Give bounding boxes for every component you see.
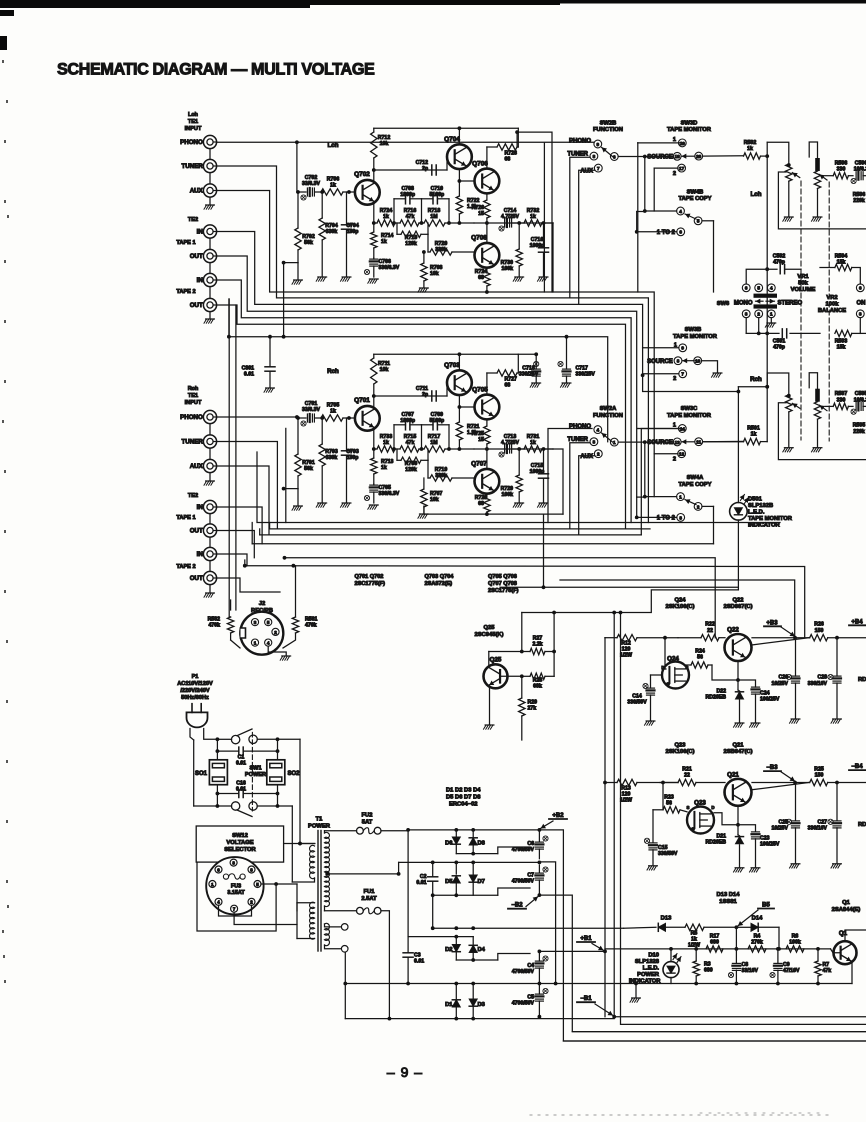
svg-text:SW2B: SW2B (600, 121, 617, 127)
svg-text:Q702: Q702 (354, 171, 370, 178)
mid rail wire (474, 222, 553, 224)
svg-text:RD1: RD1 (858, 677, 866, 683)
wire (618, 441, 673, 443)
wire (455, 953, 457, 961)
svg-text:Q701: Q701 (354, 397, 370, 404)
wire (638, 428, 683, 430)
transformer primary lower winding (297, 902, 315, 904)
svg-text:IN: IN (197, 551, 204, 558)
svg-text:R4: R4 (754, 934, 761, 940)
svg-text:3: 3 (254, 620, 257, 625)
wire (455, 845, 457, 854)
svg-text:R26: R26 (814, 622, 824, 628)
wire (517, 132, 552, 292)
svg-text:R706: R706 (327, 177, 340, 183)
svg-text:150: 150 (815, 628, 824, 634)
svg-text:D22: D22 (716, 689, 726, 695)
svg-text:SW2A: SW2A (600, 406, 618, 412)
svg-text:TE2: TE2 (188, 217, 198, 223)
svg-text:2: 2 (757, 312, 760, 317)
wire (752, 783, 810, 790)
wire bus Lch TAPE2 IN (217, 280, 631, 523)
svg-text:POWER: POWER (308, 824, 331, 830)
wire (296, 903, 298, 939)
svg-text:G: G (666, 682, 670, 687)
svg-text:R507: R507 (835, 391, 848, 397)
svg-text:R704: R704 (325, 223, 338, 229)
svg-text:C702: C702 (305, 175, 318, 181)
wire (778, 403, 866, 460)
svg-text:R720: R720 (435, 241, 448, 247)
wire (393, 425, 395, 449)
svg-text:1k: 1k (381, 465, 387, 471)
ground (751, 722, 760, 724)
svg-text:330: 330 (837, 397, 846, 403)
switch SW3B wiper (682, 360, 694, 362)
svg-text:RD1: RD1 (858, 822, 866, 828)
svg-text:4: 4 (267, 641, 270, 646)
wire SW4A 2 drop (713, 506, 715, 543)
wire driver left verticals (604, 638, 606, 1017)
svg-text:R503: R503 (835, 339, 848, 345)
wire circle5 branch (702, 505, 714, 507)
svg-text:R502: R502 (744, 140, 757, 146)
svg-text:2SC945(K): 2SC945(K) (475, 632, 504, 638)
svg-text:220k: 220k (853, 198, 865, 204)
wire bus Rch TUNER (217, 442, 278, 529)
switch SW3D wiper (682, 155, 695, 157)
svg-text:50Hz/60Hz: 50Hz/60Hz (181, 695, 209, 701)
svg-text:TUNER: TUNER (181, 439, 203, 446)
svg-text:TAPE COPY: TAPE COPY (678, 196, 711, 202)
svg-text:PHONO: PHONO (569, 424, 591, 430)
wire (455, 883, 457, 895)
wire bus Rch AUX (217, 466, 269, 535)
svg-text:68k: 68k (533, 684, 542, 690)
svg-text:Lch: Lch (188, 112, 199, 118)
svg-text:SOURCE: SOURCE (647, 440, 673, 446)
svg-text:AUX: AUX (580, 168, 593, 174)
svg-text:1/2W: 1/2W (620, 797, 632, 803)
svg-text:SO1: SO1 (195, 771, 208, 777)
selector rotary with fuse FU3 3.15AT (206, 857, 263, 914)
svg-text:TUNER: TUNER (181, 163, 203, 170)
svg-text:R728: R728 (505, 151, 518, 157)
svg-text:R23: R23 (664, 794, 674, 800)
ground (813, 447, 822, 449)
svg-text:150: 150 (815, 773, 824, 779)
svg-text:SW6: SW6 (717, 301, 730, 307)
ground (209, 585, 211, 593)
svg-text:C717: C717 (576, 366, 589, 372)
svg-text:R730: R730 (501, 260, 514, 266)
wire (553, 652, 555, 677)
wire (291, 806, 293, 882)
ground (562, 382, 571, 384)
svg-text:1800p: 1800p (400, 418, 415, 424)
svg-text:4: 4 (679, 209, 682, 214)
svg-text:C709: C709 (431, 412, 444, 418)
svg-text:330/6.3V: 330/6.3V (379, 265, 400, 271)
svg-text:10k: 10k (430, 497, 439, 503)
wire selector pin5 (261, 883, 297, 885)
svg-text:SW12: SW12 (232, 833, 248, 839)
ground (369, 504, 378, 506)
wire bus Lch TUNER (217, 166, 649, 523)
svg-text:TAPE 2: TAPE 2 (176, 289, 195, 295)
wire rect top rail (408, 829, 539, 831)
svg-text:C24: C24 (760, 691, 770, 697)
svg-text:SW4B: SW4B (687, 190, 704, 196)
svg-text:6: 6 (679, 230, 682, 235)
svg-text:56k: 56k (304, 240, 313, 246)
svg-text:1 TO 2: 1 TO 2 (657, 230, 676, 236)
wire secondary mid tap (327, 873, 399, 875)
svg-text:5: 5 (757, 286, 760, 291)
svg-text:R506: R506 (853, 192, 866, 198)
svg-text:D8: D8 (478, 841, 486, 847)
svg-text:27k: 27k (528, 706, 537, 712)
wire (644, 442, 646, 497)
svg-text:IN: IN (197, 277, 204, 284)
svg-text:100k: 100k (501, 492, 513, 498)
svg-text:5AT: 5AT (362, 820, 373, 826)
svg-text:5: 5 (267, 620, 270, 625)
wire TUNER feed Rch (570, 443, 590, 529)
svg-text:Rch: Rch (750, 376, 762, 383)
ground (420, 513, 429, 515)
svg-text:C705: C705 (379, 485, 392, 491)
svg-text:1: 1 (613, 440, 616, 445)
svg-text:4700/50V: 4700/50V (512, 847, 535, 853)
svg-text:50k: 50k (798, 280, 808, 286)
svg-text:S: S (686, 665, 689, 670)
ground (539, 502, 548, 504)
ground (791, 718, 800, 720)
wire (539, 830, 866, 1041)
svg-text:330k: 330k (326, 455, 338, 461)
wire (624, 926, 656, 929)
wire collector node (372, 168, 376, 172)
svg-text:4700/50V: 4700/50V (512, 1001, 535, 1007)
transformer secondary main winding (324, 831, 326, 833)
svg-text:RD20EB: RD20EB (706, 695, 727, 701)
svg-text:−B2: −B2 (511, 903, 523, 909)
svg-text:R724: R724 (380, 208, 393, 214)
wire SW3B circle10 to ground (702, 361, 718, 372)
potentiometer Lch level (786, 164, 792, 181)
svg-text:C716: C716 (531, 237, 544, 243)
wire (738, 386, 767, 388)
svg-text:680: 680 (710, 940, 719, 946)
svg-text:15: 15 (478, 211, 484, 217)
wire (538, 893, 542, 897)
wire (638, 142, 683, 144)
svg-text:SLP132B: SLP132B (748, 503, 773, 509)
svg-text:D5 D6 D7 D8: D5 D6 D7 D8 (446, 795, 481, 801)
wire SW3B (643, 347, 679, 349)
svg-text:R719: R719 (435, 467, 448, 473)
svg-text:0.01: 0.01 (416, 880, 426, 886)
svg-text:Q703 Q704: Q703 Q704 (425, 574, 455, 580)
svg-text:330: 330 (837, 167, 846, 173)
svg-text:10: 10 (695, 359, 701, 364)
svg-text:0.01: 0.01 (236, 787, 246, 793)
wire (284, 843, 315, 845)
svg-text:R581: R581 (305, 617, 318, 623)
wire (543, 143, 545, 292)
svg-text:INPUT: INPUT (185, 400, 202, 406)
svg-text:D10: D10 (648, 953, 659, 959)
svg-text:100p: 100p (347, 229, 359, 235)
wire (662, 783, 664, 810)
wire plug left (190, 729, 194, 741)
svg-text:SW3B: SW3B (685, 327, 702, 333)
switch SW3C wiper (682, 441, 695, 443)
svg-text:VOLTAGE: VOLTAGE (226, 840, 253, 846)
svg-text:C714: C714 (504, 208, 517, 214)
svg-text:2SC1775(F): 2SC1775(F) (355, 581, 386, 587)
ground (268, 646, 286, 655)
svg-text:2: 2 (274, 630, 277, 635)
transformer secondary small winding (325, 923, 330, 945)
svg-text:C28: C28 (817, 675, 827, 681)
svg-text:330/6.3V: 330/6.3V (379, 491, 400, 497)
svg-text:R508: R508 (835, 161, 848, 167)
svg-text:2: 2 (597, 452, 600, 457)
svg-text:7: 7 (597, 166, 600, 171)
svg-text:TAPE COPY: TAPE COPY (678, 482, 711, 488)
svg-text:2SK106(C): 2SK106(C) (666, 604, 695, 610)
svg-text:R7: R7 (823, 962, 830, 968)
svg-text:SW3C: SW3C (681, 406, 699, 412)
svg-text:470k: 470k (305, 623, 317, 629)
ground (646, 720, 655, 722)
svg-text:0.01: 0.01 (236, 761, 246, 767)
svg-text:33/6.3V: 33/6.3V (302, 407, 320, 413)
wire AUX feed Rch (579, 456, 595, 535)
wire (735, 927, 737, 949)
svg-text:10/25V: 10/25V (772, 826, 789, 832)
svg-text:1: 1 (673, 137, 676, 143)
svg-text:VR1: VR1 (797, 274, 809, 280)
svg-text:56: 56 (666, 801, 672, 807)
svg-text:470p: 470p (773, 345, 785, 351)
switch SW1 lower pole (194, 805, 232, 807)
svg-text:VR2: VR2 (826, 295, 837, 301)
ground (539, 276, 548, 278)
svg-text:1k: 1k (330, 409, 336, 415)
svg-text:SCHEMATIC DIAGRAM — MULTI VOLT: SCHEMATIC DIAGRAM — MULTI VOLTAGE (57, 61, 375, 79)
svg-text:1: 1 (254, 641, 257, 646)
svg-text:FU2: FU2 (362, 813, 373, 819)
svg-text:15k: 15k (837, 345, 846, 351)
wire (654, 167, 678, 169)
svg-text:R713: R713 (381, 459, 394, 465)
svg-text:1k: 1k (747, 146, 753, 152)
svg-text:2: 2 (673, 171, 676, 177)
svg-text:SO2: SO2 (288, 771, 301, 777)
wire SW6 bottom rail (745, 318, 747, 334)
wire (297, 417, 306, 419)
wire TUNER feed (570, 157, 590, 298)
svg-text:Q708: Q708 (471, 235, 487, 242)
svg-text:68: 68 (478, 275, 484, 281)
svg-text:8: 8 (677, 359, 680, 364)
svg-text:C8: C8 (742, 962, 749, 968)
svg-text:47/10V: 47/10V (783, 968, 800, 974)
switch SW1 upper pole (217, 738, 231, 740)
svg-text:TAPE MONITOR: TAPE MONITOR (667, 413, 712, 419)
svg-text:1: 1 (679, 495, 682, 500)
wire (817, 189, 819, 217)
svg-text:+B2: +B2 (552, 813, 564, 819)
svg-text:R705: R705 (327, 403, 340, 409)
svg-text:D: D (661, 665, 664, 670)
wire (209, 149, 211, 160)
svg-text:Q21: Q21 (727, 771, 739, 778)
switch SW1 gang dashed (251, 732, 253, 811)
wire (252, 543, 713, 545)
svg-text:TE2: TE2 (188, 493, 198, 499)
wire Rch preamp out (553, 449, 563, 514)
wire PHONO feed Lch (217, 141, 594, 143)
ground (532, 382, 541, 384)
svg-text:R732: R732 (527, 208, 540, 214)
switch SW4B wiper (685, 214, 696, 219)
svg-text:C6: C6 (527, 841, 534, 847)
wire (714, 806, 738, 825)
wire gate (651, 674, 662, 676)
wire (845, 930, 866, 941)
svg-text:100p: 100p (347, 455, 359, 461)
svg-text:0.01: 0.01 (244, 372, 254, 378)
svg-text:1/2W: 1/2W (688, 943, 700, 949)
svg-text:33/16V: 33/16V (742, 968, 759, 974)
svg-text:2SD667(C): 2SD667(C) (724, 604, 753, 610)
svg-text:R711: R711 (378, 361, 390, 367)
svg-text:Lch: Lch (750, 191, 761, 198)
svg-text:R721: R721 (467, 424, 480, 430)
svg-text:B5: B5 (762, 902, 770, 908)
svg-text:10k: 10k (380, 367, 389, 373)
svg-text:R24: R24 (695, 649, 705, 655)
svg-text:STEREO: STEREO (778, 300, 803, 306)
svg-text:1k: 1k (381, 239, 387, 245)
wire rect mid rail (399, 861, 540, 863)
svg-text:SELECTOR: SELECTOR (224, 847, 256, 853)
wire (209, 514, 211, 524)
svg-text:56: 56 (697, 655, 703, 661)
wire vertical pair (228, 299, 230, 617)
svg-text:C27: C27 (817, 820, 827, 826)
svg-text:5: 5 (697, 219, 700, 224)
wire (752, 638, 810, 645)
ground (369, 278, 378, 280)
svg-text:17: 17 (679, 166, 685, 171)
svg-text:C501: C501 (773, 339, 786, 345)
svg-text:47k: 47k (406, 214, 415, 220)
svg-text:4700/50V: 4700/50V (512, 879, 535, 885)
wire (296, 884, 298, 911)
svg-text:R582: R582 (208, 617, 221, 623)
svg-text:D14: D14 (752, 916, 763, 922)
svg-text:3: 3 (859, 312, 862, 317)
LED D501 SLP132B tape monitor indicator (737, 387, 739, 503)
wire rail (752, 782, 810, 784)
svg-text:ERC04−02: ERC04−02 (449, 802, 478, 808)
svg-text:4: 4 (597, 428, 600, 433)
wire (539, 862, 555, 984)
wire (654, 453, 678, 455)
svg-text:2SC1775(F): 2SC1775(F) (488, 588, 519, 594)
ground (515, 502, 524, 504)
wire (636, 212, 638, 232)
svg-text:IN: IN (197, 229, 204, 236)
svg-text:SOURCE: SOURCE (647, 154, 673, 160)
wire Lch out (552, 223, 554, 292)
svg-text:R718: R718 (428, 208, 441, 214)
svg-text:G: G (691, 826, 695, 831)
wire rect bottom rail (455, 1007, 457, 1019)
svg-text:L.E.D.: L.E.D. (748, 510, 765, 516)
svg-text:1SS81: 1SS81 (719, 899, 737, 905)
potentiometer Lch slug (809, 142, 817, 158)
ground (318, 502, 327, 504)
switch SW4A wiper (685, 500, 696, 505)
ground (791, 863, 800, 865)
svg-text:68: 68 (478, 501, 484, 507)
svg-text:Q22: Q22 (727, 627, 739, 634)
svg-text:1: 1 (673, 423, 676, 429)
svg-text:C710: C710 (431, 186, 444, 192)
svg-text:120k: 120k (405, 467, 417, 473)
svg-text:D21: D21 (716, 833, 726, 839)
svg-text:C23: C23 (760, 835, 770, 841)
svg-text:D1 D2 D3 D4: D1 D2 D3 D4 (446, 788, 481, 794)
wire (244, 560, 246, 566)
svg-text:R27: R27 (533, 636, 543, 642)
wire (543, 515, 545, 587)
wire (831, 949, 841, 953)
svg-text:FUNCTION: FUNCTION (593, 127, 623, 133)
svg-text:100k: 100k (826, 302, 840, 308)
svg-text:3.15AT: 3.15AT (227, 890, 245, 896)
svg-text:R729: R729 (501, 486, 514, 492)
svg-text:Q705 Q706: Q705 Q706 (488, 574, 517, 580)
wire rail (752, 637, 810, 639)
svg-text:C15: C15 (658, 845, 668, 851)
wire (767, 373, 789, 395)
svg-text:R733: R733 (380, 434, 393, 440)
wire (245, 566, 805, 638)
svg-text:4.7/25V: 4.7/25V (501, 440, 519, 446)
wire (458, 395, 460, 422)
wire (343, 417, 355, 419)
wire (230, 600, 232, 610)
svg-text:220k: 220k (853, 429, 865, 435)
wire selector below (219, 905, 252, 916)
svg-text:4: 4 (770, 286, 773, 291)
wire (703, 440, 744, 442)
svg-text:Lch: Lch (327, 142, 338, 149)
wire (297, 191, 306, 193)
wire +B1 rail (539, 950, 605, 952)
wire (260, 534, 642, 536)
svg-text:R715: R715 (404, 434, 417, 440)
wire bus Rch PHONO (217, 416, 297, 418)
ground (209, 473, 211, 481)
